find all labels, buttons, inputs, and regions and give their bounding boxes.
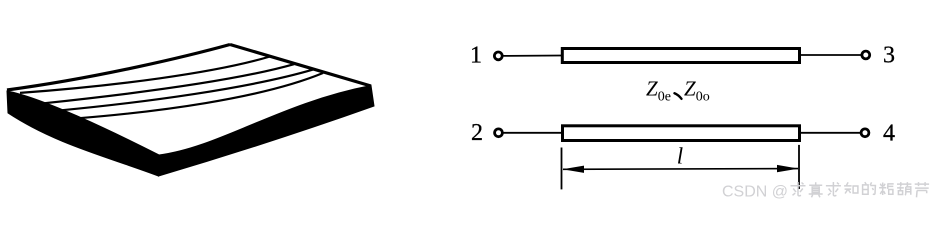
svg-text:2: 2 (471, 120, 483, 146)
svg-text:CSDN @: CSDN @ (722, 184, 788, 201)
wire top line to port3 (801, 54, 861, 56)
char hu2 (915, 182, 929, 197)
strip line S3 (61, 70, 313, 111)
dimension arrowhead left (563, 166, 585, 173)
coupled line bar top (562, 49, 799, 63)
watermark CJK stroke art (791, 182, 930, 197)
char qiu 1 (791, 182, 806, 196)
strip line S4 (79, 73, 323, 118)
wire bottom line to port4 (801, 132, 860, 134)
dimension extension line left (561, 148, 563, 190)
substrate top face (7, 45, 371, 156)
char de (863, 182, 876, 194)
substrate top-left edge (7, 45, 230, 91)
svg-text:4: 4 (883, 121, 895, 147)
char qiu 2 (826, 182, 841, 196)
port 2 terminal (495, 129, 503, 137)
strip line S1 (20, 57, 270, 93)
port 3 terminal (862, 51, 870, 59)
char zhen (809, 182, 823, 197)
port 4 terminal (861, 129, 869, 137)
svg-text:1: 1 (470, 43, 482, 69)
dimension arrow line (563, 168, 798, 171)
char zhi (844, 182, 858, 193)
substrate right side face (159, 86, 375, 177)
wire port1 to top line (503, 55, 561, 57)
char hu1 (897, 182, 911, 195)
strip line S2 (44, 64, 295, 103)
coupled line bar bottom (563, 126, 800, 141)
ideographic comma (675, 93, 682, 99)
dimension arrowhead right (777, 165, 799, 172)
svg-text:l: l (677, 144, 683, 169)
char tang (879, 183, 894, 196)
substrate top-right edge (230, 45, 371, 87)
port 1 terminal (494, 52, 502, 60)
wire port2 to bottom line (503, 132, 561, 134)
svg-text:3: 3 (883, 43, 895, 69)
substrate left side face (7, 91, 159, 176)
dimension extension line right (798, 145, 800, 189)
